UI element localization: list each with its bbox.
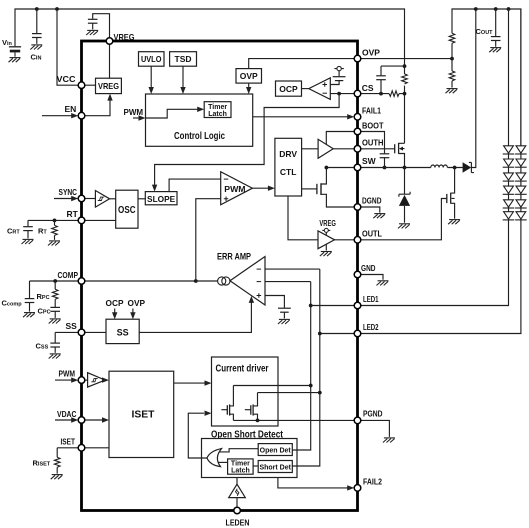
svg-text:OUTH: OUTH	[362, 138, 384, 148]
capacitor Ccomp	[29, 281, 31, 312]
node RT pin	[78, 217, 85, 224]
svg-text:OSC: OSC	[118, 205, 136, 216]
op-amp ERR AMP	[230, 257, 265, 306]
wire buffer to ISET arrow	[104, 379, 106, 381]
node EN pin	[78, 112, 85, 119]
wire OVP block arrow to control logic	[248, 83, 250, 90]
wire VREG pin to regulator	[109, 41, 111, 78]
wire to timer latch	[146, 109, 201, 118]
inductor L1	[431, 165, 448, 168]
buffer low side driver	[318, 231, 335, 249]
ground RT	[48, 241, 60, 246]
node FAIL2 pin	[354, 485, 361, 492]
svg-text:SS: SS	[66, 321, 78, 331]
svg-text:CIN: CIN	[31, 53, 42, 62]
svg-text:DGND: DGND	[362, 196, 382, 206]
node FAIL1 pin	[354, 114, 361, 121]
node PGND pin	[354, 417, 361, 424]
wire buffer to OSC	[110, 198, 116, 200]
node OVP pin	[354, 55, 361, 62]
wire ISET to current driver arrow	[174, 382, 208, 384]
wire SYNC input arrow	[54, 198, 75, 200]
resistor RISET	[54, 457, 60, 467]
svg-text:RT: RT	[67, 209, 79, 219]
svg-text:COMP: COMP	[58, 270, 79, 280]
wire DRV CTL to high side buffer	[302, 148, 319, 150]
resistor CS filter	[389, 91, 399, 97]
wire EN input arrow	[42, 115, 75, 117]
svg-text:VREG: VREG	[319, 219, 336, 228]
node SYNC pin	[78, 195, 85, 202]
ground Ccomp	[23, 313, 35, 318]
svg-text:COUT: COUT	[476, 27, 494, 36]
wire VCC pin to regulator	[82, 84, 96, 86]
buffer high side driver	[318, 139, 333, 158]
resistor current sense	[402, 74, 408, 84]
block Open Det	[258, 444, 292, 456]
svg-text:Open Det: Open Det	[260, 447, 292, 454]
wire OUTL to Q2 gate	[358, 199, 447, 240]
svg-text:OVP: OVP	[240, 71, 258, 81]
wire EN to regulator arrow	[82, 98, 111, 116]
diode D2 series schottky	[463, 162, 472, 173]
node PWM pin	[78, 377, 85, 384]
capacitor CPC	[50, 307, 60, 311]
wire err amp minus1 to LED2 net	[265, 268, 320, 270]
wire OCP block to comparator	[302, 88, 309, 90]
wire FAIL1 from control logic	[253, 116, 351, 118]
wire VCC feed	[57, 9, 82, 85]
svg-text:SS: SS	[117, 327, 129, 337]
wire GND ground	[358, 275, 384, 280]
svg-text:Short Det: Short Det	[259, 464, 291, 471]
block Timer Latch	[204, 102, 231, 118]
block Current driver	[212, 357, 279, 426]
wire SYNC pin to buffer	[82, 198, 96, 200]
block UVLO	[139, 52, 165, 66]
wire LED2 net vertical	[292, 269, 320, 466]
svg-text:PWM: PWM	[224, 184, 245, 194]
svg-text:OUTL: OUTL	[362, 229, 382, 239]
ground CRT	[22, 239, 34, 244]
svg-text:PWM: PWM	[124, 108, 144, 117]
wire CS to comparator minus	[330, 93, 357, 95]
wire buffer to OUTH pin	[333, 148, 357, 150]
transistor internal low-side	[316, 184, 318, 194]
transistor driver M1	[221, 409, 227, 411]
wire or-gate input2 to Timer Latch	[218, 461, 228, 463]
svg-text:CTL: CTL	[280, 167, 297, 177]
svg-text:RT: RT	[38, 227, 47, 236]
wire PWM comparator out to DRV CTL	[252, 187, 271, 189]
ground D1	[398, 224, 410, 229]
wire err amp out to PWM plus	[196, 199, 221, 281]
wire PGND ground	[358, 420, 390, 437]
svg-text:OCP: OCP	[279, 84, 298, 94]
wire OVP sense	[450, 57, 454, 61]
node LED2 pin	[354, 330, 361, 337]
wire LED string 1	[358, 9, 509, 306]
wire PWM pin to buffer	[82, 379, 88, 381]
wire OVP pin to OVP block	[249, 59, 452, 69]
wire CS filter top	[381, 66, 405, 94]
svg-text:PWM: PWM	[59, 369, 76, 379]
node SW pin	[354, 164, 361, 171]
svg-text:ISET: ISET	[61, 436, 76, 446]
wire TSD arrow	[182, 66, 184, 90]
svg-text:BOOT: BOOT	[362, 120, 384, 130]
wire VDAC to ISET arrow	[82, 419, 106, 421]
ground VREG bypass	[86, 30, 98, 35]
wire or-gate input1 to Open Det	[218, 449, 258, 452]
op-amp OCP comparator	[309, 78, 331, 100]
diode D1 freewheel schottky	[404, 168, 406, 223]
ground low side buffer	[325, 244, 327, 250]
wire ISET external	[57, 448, 81, 474]
svg-text:Ccomp: Ccomp	[2, 299, 23, 308]
wire SS to err amp arrow	[139, 303, 251, 333]
ground CIN	[30, 45, 42, 50]
capacitor CIN	[32, 34, 42, 38]
svg-text:EN: EN	[65, 104, 77, 114]
wire err amp minus2 to LED1 net	[265, 281, 311, 283]
svg-text:VCC: VCC	[57, 74, 76, 84]
node DGND pin	[354, 204, 361, 211]
wire M2 drain rail to LED2 net	[258, 392, 320, 394]
capacitor CS filter	[376, 76, 386, 80]
svg-text:OCP: OCP	[106, 298, 124, 308]
node VCC branch	[55, 7, 59, 11]
svg-text:Latch: Latch	[208, 111, 227, 118]
node VDAC pin	[78, 417, 85, 424]
wire ISET pin to ISET block	[82, 447, 110, 449]
block TSD	[170, 52, 197, 66]
node GND pin	[354, 271, 361, 278]
node ISET pin	[78, 445, 85, 452]
node OUTH pin	[354, 146, 361, 153]
svg-text:SYNC: SYNC	[59, 187, 78, 197]
wire DRV CTL to gate	[302, 188, 317, 190]
block Timer Latch detect	[228, 459, 254, 474]
ground Css	[49, 354, 61, 359]
wire detect to FAIL2 arrow	[278, 478, 351, 488]
wire PWM logic input arrow	[133, 117, 142, 119]
wire OUTH to Q1 gate	[358, 148, 395, 150]
svg-text:UVLO: UVLO	[141, 54, 162, 64]
wire SW node internal	[321, 168, 358, 208]
wire BOOT to high side buffer	[326, 132, 357, 145]
wire LED2 pin left	[320, 333, 358, 335]
svg-text:ISET: ISET	[132, 410, 155, 421]
wire LED1 net vertical	[292, 282, 310, 450]
wire COMP external	[30, 280, 82, 282]
node CIN junction	[35, 7, 39, 11]
wire SW line	[358, 167, 463, 169]
svg-text:GND: GND	[361, 263, 376, 273]
svg-text:FAIL1: FAIL1	[362, 106, 381, 116]
wire DGND ground	[358, 207, 380, 213]
wire M1 drain rail to LED1 net	[233, 385, 310, 387]
svg-text:TSD: TSD	[175, 54, 192, 64]
svg-text:FAIL2: FAIL2	[363, 477, 382, 487]
block SS	[106, 319, 139, 343]
ground Q2 source	[448, 220, 460, 225]
wire BOOT capacitor	[358, 132, 385, 168]
reference for err amp plus	[265, 296, 284, 308]
node COMP pin	[78, 278, 85, 285]
svg-text:CRT: CRT	[7, 227, 20, 236]
node VCC pin	[78, 82, 85, 89]
capacitor COUT	[495, 9, 497, 47]
buffer LEDEN schmitt	[236, 478, 238, 508]
wire DRV CTL to low side buffer	[288, 196, 318, 240]
svg-text:LED2: LED2	[363, 322, 379, 332]
wire OCP arrow into SS	[114, 309, 116, 316]
block SLOPE	[145, 192, 177, 205]
svg-text:CSS: CSS	[36, 342, 49, 351]
buffer PWM schmitt	[88, 373, 106, 387]
node VREG pin	[106, 38, 113, 45]
wire LED1 pin left	[311, 305, 358, 307]
node LEDEN pin	[234, 507, 241, 514]
ground Vin	[9, 58, 21, 63]
wire CIN	[36, 9, 38, 44]
svg-text:OVP: OVP	[362, 47, 380, 57]
transistor Q2 external boost	[446, 194, 448, 203]
wire buffer to OUTL pin	[335, 239, 358, 241]
svg-text:OVP: OVP	[128, 298, 146, 308]
wire LED string 2	[358, 9, 521, 334]
wire Timer Latch to Short Det	[253, 465, 258, 467]
node SS pin	[78, 329, 85, 336]
block OSC	[116, 190, 138, 228]
wire UVLO arrow	[150, 66, 152, 90]
node BOOT pin	[354, 128, 361, 135]
capacitor CRT	[27, 220, 29, 238]
capacitor Css	[50, 343, 60, 347]
node LED1 pin	[354, 302, 361, 309]
wire RT pin to OSC	[82, 219, 116, 221]
svg-text:Current driver: Current driver	[216, 364, 269, 375]
svg-text:LEDEN: LEDEN	[226, 518, 250, 528]
block ISET	[109, 371, 174, 457]
battery Vin	[9, 47, 21, 57]
wire or-gate output to current driver arrow	[188, 413, 207, 458]
svg-text:RPC: RPC	[37, 292, 50, 301]
transistor driver M2	[245, 409, 251, 411]
wire SS pin to SS block	[82, 331, 107, 333]
resistor OVP divider bottom	[449, 71, 455, 81]
block Control Logic	[146, 94, 253, 146]
resistor RPC	[54, 281, 56, 307]
wire Vin rail lower segment to Q1 drain	[404, 86, 406, 144]
svg-text:Timer: Timer	[208, 104, 227, 111]
svg-text:VDAC: VDAC	[57, 409, 77, 419]
block DRV CTL	[275, 138, 302, 196]
svg-text:CPC: CPC	[38, 307, 51, 316]
wire CS pin network	[358, 93, 405, 95]
capacitor BOOT	[380, 154, 390, 158]
svg-text:SW: SW	[362, 156, 377, 166]
svg-text:CS: CS	[362, 83, 374, 93]
ground OVP divider	[446, 89, 458, 94]
svg-text:Control Logic: Control Logic	[174, 131, 225, 142]
block OVP	[236, 69, 262, 84]
svg-text:ERR AMP: ERR AMP	[217, 252, 251, 262]
wire VDAC input arrow	[55, 419, 75, 421]
resistor RT	[54, 220, 56, 240]
svg-text:Latch: Latch	[231, 468, 250, 475]
wire Vin rail	[15, 9, 405, 74]
svg-text:DRV: DRV	[279, 149, 297, 159]
regulator VREG box	[96, 78, 122, 93]
ground COUT	[489, 48, 501, 53]
node CS pin	[354, 90, 361, 97]
transistor Q1 external buck	[394, 144, 396, 153]
LED string 1 diodes	[503, 146, 515, 154]
svg-text:Vin: Vin	[2, 38, 13, 47]
svg-text:VREG: VREG	[98, 81, 119, 91]
svg-text:VREG: VREG	[114, 32, 135, 42]
wire OSC to SLOPE	[138, 198, 145, 200]
or-gate detect combine	[207, 449, 222, 467]
svg-text:PGND: PGND	[363, 408, 383, 418]
ground RISET	[51, 475, 63, 480]
LED string 2 diodes	[515, 146, 527, 154]
ground err amp reference	[278, 319, 290, 324]
wire PWM input arrow	[55, 379, 75, 381]
resistor OVP divider top	[449, 33, 455, 43]
wire OVP arrow into SS	[132, 309, 134, 316]
node OUTL pin	[354, 237, 361, 244]
reference for OCP comparator	[337, 66, 341, 70]
block OCP	[276, 81, 302, 96]
wire RT external	[28, 219, 82, 221]
wire output rail	[452, 9, 521, 146]
wire SLOPE to PWM comparator minus	[169, 179, 221, 192]
buffer SYNC schmitt	[95, 191, 109, 208]
block Short Det	[258, 461, 292, 473]
ground CPC	[49, 319, 61, 324]
wire CS to slope comp	[155, 94, 340, 188]
svg-text:RISET: RISET	[33, 459, 51, 468]
svg-text:LED1: LED1	[363, 294, 379, 304]
wire common source rail to PGND	[233, 419, 357, 421]
op-amp PWM comparator	[221, 172, 253, 205]
svg-text:SLOPE: SLOPE	[147, 194, 176, 204]
capacitor VREG bypass	[93, 14, 110, 38]
block Open Short Detect	[202, 439, 298, 478]
wire SS external	[55, 332, 81, 353]
wire COMP pin to err amp	[82, 280, 218, 282]
